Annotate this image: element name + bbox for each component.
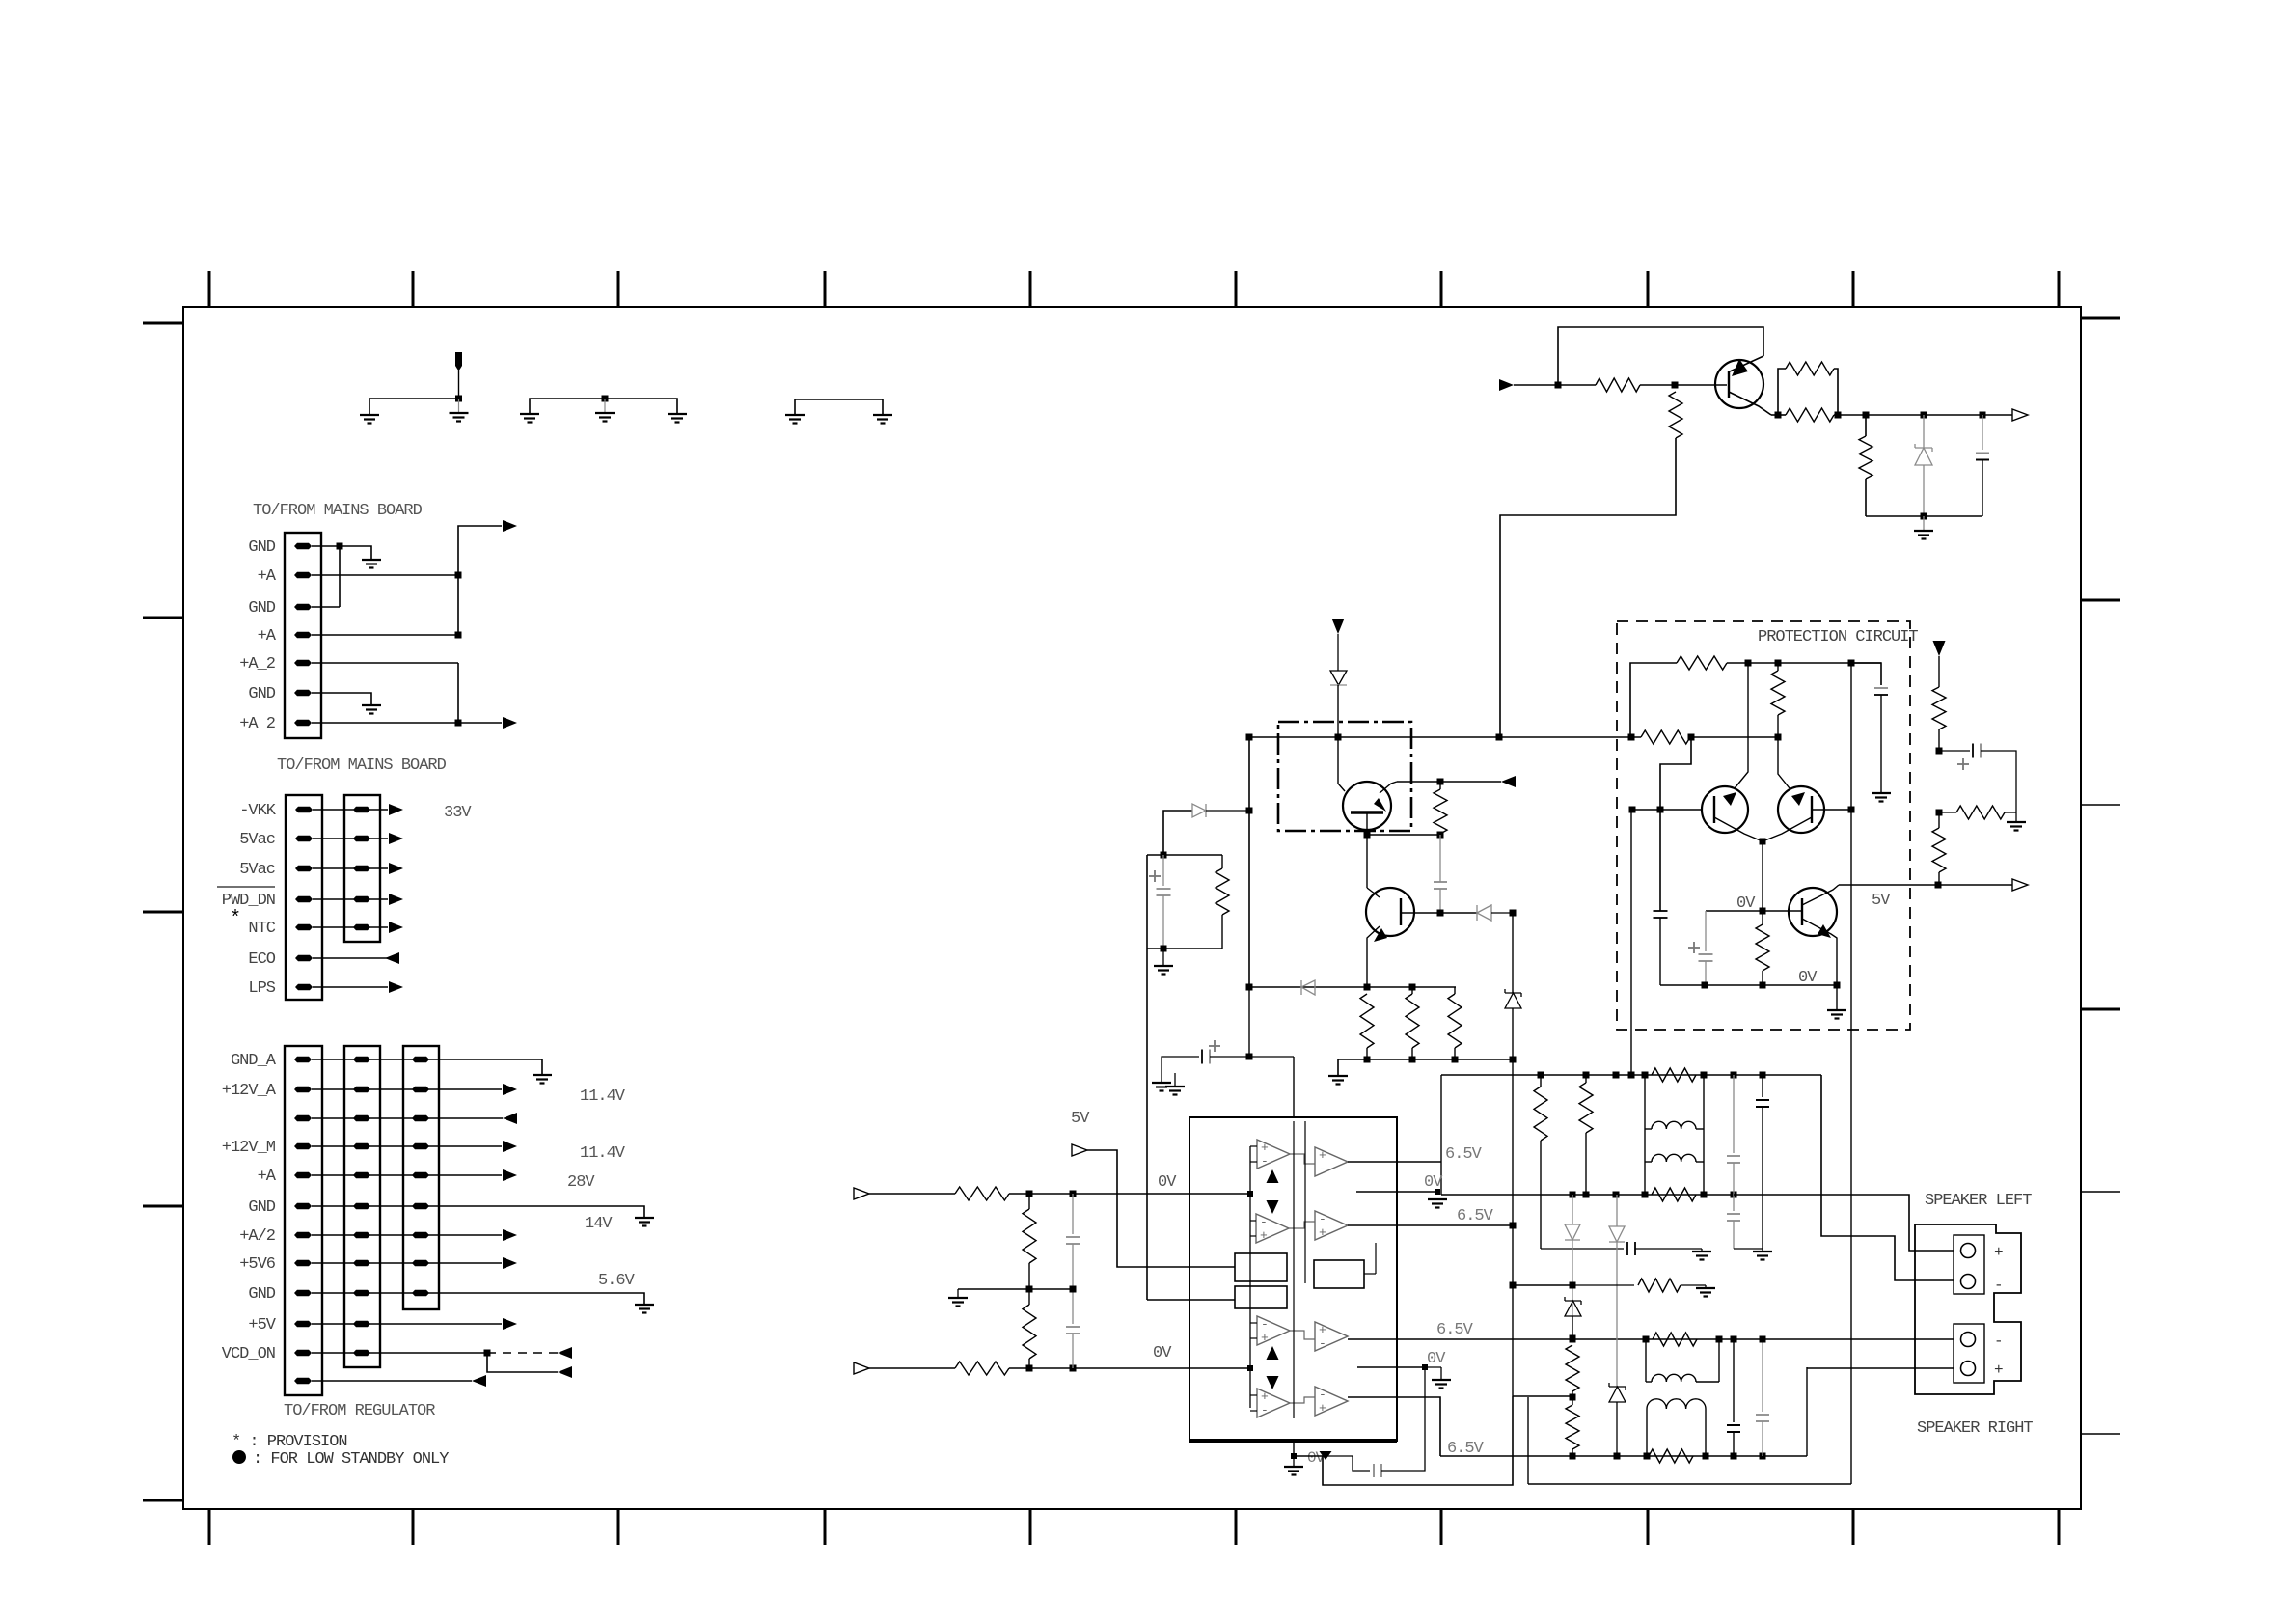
wire — [1163, 811, 1192, 855]
wire VCD_ON — [312, 1352, 487, 1354]
node junction — [1936, 748, 1943, 755]
wire base Q1 — [1338, 737, 1345, 791]
arrow out +5V6 — [503, 1257, 517, 1269]
svg-text:SPEAKER RIGHT: SPEAKER RIGHT — [1917, 1419, 2033, 1438]
emitter arrow Q2 — [1374, 928, 1387, 942]
emitter lead Q31 — [1763, 817, 1812, 841]
node junction — [1496, 734, 1503, 741]
ground — [1428, 1198, 1447, 1200]
wire collector long right — [1850, 663, 1852, 810]
diode D4 — [1301, 980, 1315, 995]
pin mate — [412, 1057, 429, 1062]
svg-text:LPS: LPS — [248, 979, 275, 998]
node junction — [1921, 513, 1927, 520]
wire long vertical — [1146, 855, 1148, 1300]
protection circuit dashed box — [1617, 621, 1910, 1030]
wire to speaker left plus — [1734, 1195, 1954, 1251]
wire — [1644, 1075, 1646, 1195]
frame tick marks right — [2081, 317, 2120, 320]
diode D2 — [1477, 905, 1491, 921]
node junction — [1435, 1189, 1440, 1195]
ground — [360, 414, 379, 416]
rail left bottom — [1441, 1194, 1734, 1196]
resistor R7 vertical — [1448, 994, 1462, 1048]
ground — [1827, 1009, 1846, 1011]
op-amp A1 — [1257, 1140, 1290, 1169]
node junction — [1628, 734, 1635, 741]
svg-text:-VKK: -VKK — [239, 802, 277, 820]
emitter lead Q2 — [1367, 926, 1380, 987]
ground — [1152, 1082, 1171, 1084]
wire out A8 — [1348, 1397, 1440, 1456]
resistor R30 — [1677, 656, 1727, 670]
wire — [1727, 662, 1881, 664]
node junction — [1510, 910, 1517, 917]
wire bus — [1249, 1146, 1251, 1408]
wire — [1290, 1154, 1315, 1164]
wire GND_A — [312, 1059, 542, 1075]
wire — [1865, 479, 1867, 516]
base rail — [1632, 809, 1702, 811]
node junction — [1555, 382, 1562, 389]
ground — [1692, 1251, 1711, 1252]
wire — [1513, 1395, 1572, 1397]
transistor Q32 — [1789, 888, 1837, 936]
emitter lead Q10 — [1730, 356, 1763, 371]
ground — [595, 412, 615, 414]
capacitor C4 — [1209, 1045, 1220, 1047]
arrow out +A_2 — [503, 717, 517, 729]
wire base Q31 — [1812, 809, 1851, 811]
connector J3 mate A — [344, 1046, 380, 1367]
open arrow input R — [854, 1362, 869, 1374]
wire out A6 — [1348, 1224, 1513, 1226]
capacitor C52 — [1373, 1464, 1375, 1477]
wire pin3 GND — [312, 606, 340, 608]
capacitor C31 electrolytic — [1688, 947, 1700, 949]
svg-text:-: - — [1261, 1403, 1269, 1417]
wire bottom node — [1866, 515, 1982, 517]
base bar Q31 — [1811, 796, 1813, 823]
wire — [1364, 1273, 1376, 1275]
wire row3 — [312, 1117, 503, 1119]
capacitor C70 — [1733, 1339, 1735, 1422]
wire — [1174, 1073, 1176, 1087]
svg-text:6.5V: 6.5V — [1436, 1321, 1474, 1339]
capacitor C62 — [1762, 1075, 1763, 1097]
svg-text:5V: 5V — [1071, 1110, 1090, 1128]
node junction — [1775, 734, 1782, 741]
resistor R6 vertical — [1406, 994, 1419, 1048]
wire — [1248, 987, 1250, 1057]
overline PWD_DN — [217, 886, 275, 888]
wire — [1337, 685, 1339, 737]
resistor R42 vertical — [1932, 828, 1946, 872]
capacitor C3 electrolytic — [1149, 875, 1161, 877]
wire — [458, 370, 460, 399]
rail — [1249, 986, 1456, 988]
ground — [362, 559, 381, 561]
wire — [795, 399, 883, 415]
node junction — [1760, 908, 1766, 915]
wire — [458, 526, 502, 635]
resistor R31 — [1641, 730, 1690, 744]
svg-text:* : PROVISION: * : PROVISION — [232, 1433, 347, 1451]
pin mate — [353, 1143, 370, 1149]
connector J1 — [285, 533, 321, 738]
svg-text:0V: 0V — [1427, 1350, 1446, 1368]
resistor R61 — [1652, 1188, 1696, 1201]
svg-text:NTC: NTC — [248, 920, 275, 938]
node junction — [1936, 810, 1943, 816]
wire base Q32 — [1763, 910, 1802, 912]
wire — [1250, 1145, 1257, 1147]
pin NTC — [295, 924, 313, 930]
wire — [1865, 415, 1867, 436]
resistor R50 — [955, 1187, 1009, 1200]
ground — [948, 1297, 968, 1299]
open arrow out 5V — [2012, 879, 2028, 891]
node junction — [1629, 807, 1636, 813]
wire cap path — [1353, 1456, 1370, 1471]
svg-text:+: + — [1319, 1148, 1326, 1163]
wire — [313, 898, 388, 900]
capacitor C60 — [1733, 1075, 1735, 1153]
resistor R40 vertical — [1932, 687, 1946, 729]
wire — [1923, 516, 1925, 531]
wire collector Q1 — [1397, 781, 1501, 783]
wire out A7 to speaker right minus — [1348, 1338, 1954, 1340]
svg-text:14V: 14V — [585, 1215, 613, 1233]
pin mate — [412, 1172, 429, 1178]
wire — [340, 546, 371, 560]
node junction — [1570, 1192, 1576, 1198]
node junction — [1935, 882, 1942, 889]
emitter arrow Q32 — [1818, 924, 1831, 938]
pin nc — [294, 1115, 312, 1121]
wire collector TL — [1735, 663, 1748, 788]
inductor L61 — [1652, 1154, 1696, 1162]
wire — [1630, 663, 1677, 737]
resistor R71 — [1649, 1449, 1693, 1463]
svg-text:-: - — [1994, 1277, 2004, 1294]
collector lead Q32 — [1802, 885, 1839, 905]
wire to speaker left minus — [1821, 1075, 1954, 1280]
logic box B2 — [1235, 1286, 1287, 1308]
svg-text:PROTECTION CIRCUIT: PROTECTION CIRCUIT — [1758, 628, 1918, 646]
pin GND — [294, 1203, 312, 1209]
wire IC ground stub — [1293, 1441, 1295, 1456]
open arrow out — [2012, 409, 2028, 421]
node junction — [1026, 1191, 1033, 1197]
emitter bar Q1 — [1351, 811, 1383, 813]
frame tick marks top — [208, 271, 211, 307]
wire emitter Q1 — [1366, 812, 1368, 835]
node junction — [1835, 412, 1842, 419]
wire — [1778, 369, 1786, 415]
node junction — [1510, 1282, 1517, 1289]
wire pin1 GND — [312, 545, 340, 547]
ground — [1328, 1075, 1348, 1077]
svg-text:TO/FROM REGULATOR: TO/FROM REGULATOR — [284, 1402, 435, 1420]
pin +A — [294, 1172, 312, 1178]
node junction — [1161, 852, 1167, 859]
rail right bottom — [1440, 1455, 1807, 1457]
wire to B2 — [1147, 1299, 1235, 1301]
wire pin7 +A_2 — [312, 722, 458, 724]
pin mate — [353, 1115, 370, 1121]
node junction — [1570, 1453, 1576, 1460]
collector lead Q1 — [1380, 782, 1397, 793]
ground — [1696, 1287, 1715, 1289]
wire — [1635, 1248, 1702, 1250]
resistor R64 — [1638, 1279, 1681, 1292]
wire — [1337, 634, 1339, 671]
svg-text:+5V6: +5V6 — [239, 1255, 276, 1274]
logic box B3 — [1314, 1260, 1364, 1288]
wire input R — [869, 1367, 955, 1369]
node junction — [1291, 1453, 1297, 1459]
wire — [313, 926, 388, 928]
node junction — [1335, 734, 1342, 741]
ground — [1914, 530, 1933, 532]
node junction — [1848, 807, 1855, 813]
svg-text:GND_A: GND_A — [231, 1052, 277, 1070]
node junction — [1246, 808, 1253, 814]
op-amp A7 — [1315, 1322, 1348, 1351]
diode D1 — [1330, 671, 1347, 685]
pin 5Vac — [295, 836, 313, 841]
terminal circle — [1961, 1244, 1976, 1258]
arrow in signal — [1499, 379, 1514, 391]
arrow up — [1267, 1169, 1279, 1183]
arrow supply down — [1332, 619, 1345, 634]
connector J2 mate — [344, 795, 380, 942]
pin GND_A — [294, 1057, 312, 1062]
resistor R70 — [1653, 1333, 1697, 1346]
wire +5V — [312, 1323, 502, 1325]
pin mate — [353, 1203, 370, 1209]
terminal circle — [1961, 1275, 1976, 1289]
svg-text:-: - — [1260, 1215, 1268, 1229]
wire +12V_A — [312, 1088, 502, 1090]
node junction — [1570, 1394, 1576, 1401]
ground — [668, 413, 687, 415]
pin +5V6 — [294, 1260, 312, 1266]
wire cap top right — [1851, 663, 1881, 685]
speaker left inner — [1954, 1235, 1984, 1294]
pin mate — [412, 1203, 429, 1209]
node junction — [1702, 982, 1708, 989]
wire +12V_M — [312, 1145, 502, 1147]
emitter arrow Q10 — [1732, 359, 1748, 376]
rail bottom — [1147, 948, 1222, 949]
svg-text:+A/2: +A/2 — [239, 1227, 275, 1246]
svg-text:6.5V: 6.5V — [1447, 1440, 1485, 1458]
wire — [1705, 1409, 1707, 1456]
pin GND — [294, 1290, 312, 1296]
op-amp A3 — [1257, 1316, 1290, 1345]
capacitor C2 — [1439, 835, 1441, 882]
pin +12V_A — [294, 1087, 312, 1092]
pin LPS — [295, 984, 313, 990]
base bar Q30 — [1713, 796, 1715, 823]
node junction — [1672, 382, 1679, 389]
svg-text:*: * — [230, 908, 240, 930]
wire pin2 +A — [312, 574, 458, 576]
note low standby — [232, 1450, 246, 1464]
wire — [530, 399, 677, 414]
wire — [339, 546, 341, 607]
wire 0V — [1706, 910, 1763, 912]
resistor R3 vertical — [1216, 868, 1229, 915]
wire — [1290, 1331, 1315, 1339]
amplifier IC box U1 — [1189, 1117, 1397, 1441]
wire — [1939, 750, 1970, 752]
rail bottom — [1338, 1059, 1513, 1076]
pin mate — [353, 836, 370, 841]
wire — [458, 399, 460, 413]
wire GND row9 — [312, 1293, 644, 1305]
wire — [369, 399, 459, 415]
arrow out +A — [503, 1169, 517, 1181]
node junction — [1760, 839, 1766, 845]
ground — [1154, 965, 1173, 967]
logic box B1 — [1235, 1253, 1287, 1281]
wire — [1500, 438, 1676, 737]
collector lead Q10 — [1729, 392, 1771, 415]
base bar Q10 — [1728, 371, 1730, 398]
rail left top — [1441, 1074, 1821, 1076]
svg-text:VCD_ON: VCD_ON — [222, 1345, 275, 1363]
arrow out +A/2 — [503, 1229, 517, 1241]
op-amp A4 — [1257, 1389, 1290, 1417]
svg-text:TO/FROM MAINS BOARD: TO/FROM MAINS BOARD — [277, 756, 447, 775]
resistor R32 vertical — [1771, 671, 1785, 715]
pin mate — [353, 1260, 370, 1266]
node junction — [1437, 910, 1444, 917]
wire +5V6 — [312, 1262, 502, 1264]
wire — [1323, 1396, 1513, 1485]
svg-text:+: + — [1994, 1362, 2004, 1379]
wire +A/2 — [312, 1234, 502, 1236]
wire — [2005, 811, 2016, 813]
wire — [313, 838, 388, 839]
inductor L60 — [1652, 1121, 1696, 1129]
pin GND — [294, 604, 312, 610]
svg-text:+12V_A: +12V_A — [222, 1082, 277, 1100]
node junction — [1437, 832, 1444, 839]
svg-text:11.4V: 11.4V — [580, 1144, 626, 1163]
wire — [1806, 1367, 1808, 1456]
svg-text:GND: GND — [248, 538, 275, 557]
inductor L70 — [1652, 1374, 1696, 1382]
svg-text:0V: 0V — [1424, 1173, 1443, 1192]
resistor R66 vertical — [1566, 1405, 1579, 1449]
connector J3 mate B — [403, 1046, 439, 1309]
pin +12V_M — [294, 1143, 312, 1149]
zener diode D5 — [1512, 913, 1514, 993]
test point TP1 — [455, 352, 462, 370]
zener diode D63 — [1609, 1383, 1626, 1390]
pin mate — [412, 1260, 429, 1266]
pin +5V — [294, 1321, 312, 1327]
wire dashed VCD_ON — [487, 1352, 558, 1354]
wire — [1366, 835, 1368, 888]
svg-text:GND: GND — [248, 1198, 275, 1217]
svg-text:5.6V: 5.6V — [598, 1272, 636, 1290]
svg-text:0V: 0V — [1798, 969, 1818, 987]
node junction — [455, 396, 462, 402]
resistor R22 — [1786, 362, 1834, 375]
node junction — [1863, 412, 1870, 419]
arrow out NTC — [389, 922, 403, 933]
wire LPS — [313, 986, 388, 988]
pin mate — [412, 1143, 429, 1149]
node junction — [337, 543, 343, 550]
arrow in — [558, 1366, 572, 1378]
ground — [1753, 1251, 1772, 1252]
svg-text:ECO: ECO — [248, 950, 275, 969]
svg-text:SPEAKER LEFT: SPEAKER LEFT — [1925, 1192, 2032, 1210]
emitter arrow Q30 — [1723, 792, 1736, 806]
ground — [1432, 1379, 1451, 1381]
svg-text:0V: 0V — [1158, 1173, 1177, 1192]
op-amp A5 — [1315, 1147, 1348, 1176]
wire zobel B — [1513, 1284, 1572, 1286]
pin mate — [353, 1321, 370, 1327]
node junction — [1247, 1191, 1253, 1197]
capacitor C10 — [1982, 415, 1983, 450]
pin +A — [294, 632, 312, 638]
pin +A_2 — [294, 660, 312, 666]
node junction — [1246, 734, 1253, 741]
wire — [1162, 1057, 1199, 1083]
diode D3 — [1192, 804, 1206, 817]
pin nc — [294, 1378, 312, 1384]
resistor R21 vertical — [1669, 392, 1682, 438]
node junction — [1570, 1282, 1576, 1289]
node junction — [1026, 1286, 1033, 1293]
terminal circle — [1961, 1333, 1976, 1347]
svg-text:0V: 0V — [1736, 894, 1756, 913]
node junction — [1364, 984, 1371, 991]
resistor R63 vertical — [1579, 1083, 1593, 1133]
pin mate — [353, 1057, 370, 1062]
svg-text:+: + — [1260, 1228, 1268, 1243]
speaker connector J4 outline — [1915, 1224, 2021, 1394]
wire — [1367, 834, 1440, 836]
dash-dot box — [1278, 722, 1411, 831]
pin +A/2 — [294, 1232, 312, 1238]
wire — [1512, 1225, 1514, 1396]
zener diode D62 — [1565, 1297, 1581, 1305]
wire pin4 +A — [312, 634, 458, 636]
wire emitter node — [1762, 841, 1763, 911]
resistor R33 vertical — [1756, 924, 1769, 971]
arrow out +A — [503, 520, 517, 532]
svg-text:GND: GND — [248, 599, 275, 618]
diode D61 — [1616, 1195, 1618, 1226]
wire mid vertical 2 — [1304, 1121, 1306, 1283]
bottom rail — [1660, 984, 1837, 986]
ground — [873, 414, 892, 416]
svg-text:+A: +A — [258, 1168, 277, 1186]
ground — [2007, 821, 2026, 823]
rail top — [1147, 854, 1222, 856]
node junction — [455, 632, 462, 639]
wire out A5 — [1348, 1161, 1441, 1163]
